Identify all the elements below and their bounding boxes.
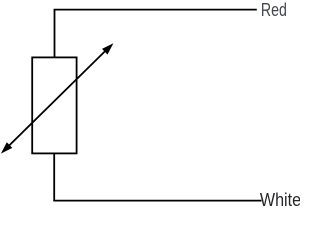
wire: top lead horizontal segment to Red terminal: [54, 9, 257, 11]
wire: bottom lead horizontal segment to White terminal: [53, 200, 261, 202]
arrowhead upper right: [102, 43, 113, 54]
variable resistor adjustment arrow shaft: [7, 49, 107, 148]
svg-text:Red: Red: [261, 0, 287, 20]
wire: top lead vertical segment: [54, 10, 56, 58]
variable resistor body (rheostat rectangle): [32, 57, 76, 153]
svg-text:White: White: [260, 189, 300, 208]
arrowhead lower left: [1, 142, 12, 153]
wire: bottom lead vertical segment: [53, 153, 55, 201]
